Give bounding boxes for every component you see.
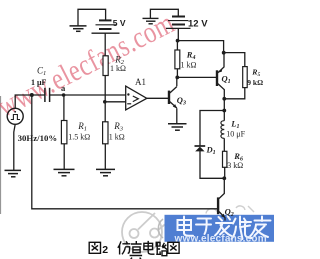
node Q1 emitter junction [222, 51, 226, 55]
路 [156, 242, 167, 255]
wire R4 bottom to junction [176, 69, 178, 78]
wire Q1 collector down [223, 99, 225, 111]
svg-text:12 V: 12 V [188, 19, 208, 30]
watermark grey logo top of blue box [206, 206, 254, 214]
电 [144, 241, 155, 254]
svg-text:5 V: 5 V [113, 18, 126, 28]
source V1 [7, 108, 23, 124]
capacitor C1 [45, 88, 50, 102]
resistor R3 [103, 122, 108, 144]
battery B2 12V [166, 17, 191, 29]
svg-text:1 kΩ: 1 kΩ [109, 132, 125, 141]
watermark blue box elecfans [158, 215, 274, 242]
wire 5V ground to battery top [78, 9, 106, 25]
watermark blue box title 电子发烧友 [178, 216, 271, 239]
node D1 top junction [222, 109, 226, 113]
图 [89, 242, 100, 253]
发 [215, 216, 232, 236]
wire feedback long loop [32, 95, 217, 209]
真 [130, 241, 143, 259]
transistor Q3 [169, 87, 177, 108]
烧 [232, 217, 253, 240]
wire R6 to junction [224, 167, 226, 178]
wire 12V rail to Q1 emitter column [178, 41, 224, 53]
图 [168, 242, 179, 253]
node R6 bottom junction [222, 176, 226, 180]
wire R1 to ground [63, 144, 65, 169]
svg-text:2: 2 [102, 244, 108, 256]
wire R5 bottom branch [224, 88, 245, 99]
svg-text:3 kΩ: 3 kΩ [227, 161, 243, 170]
transistor Q1 [217, 53, 224, 99]
ground (Q3) [168, 124, 187, 130]
wire 12V battery to rail junction [177, 28, 179, 40]
resistor R5 [243, 67, 248, 88]
wire D1 branch top [200, 111, 224, 146]
op-amp A1 [126, 86, 147, 110]
caption 图2 仿真电路图 [89, 241, 179, 259]
wire 12V ground to battery top [150, 9, 178, 18]
wire C1 to node a [50, 94, 64, 96]
wire node a to op-amp non-inverting input [63, 94, 125, 96]
ground (5V battery) [70, 26, 87, 31]
wire Q2 collector [219, 178, 224, 198]
node R4 bottom junction [175, 76, 179, 80]
wire L1 to R6 [223, 138, 225, 151]
wire Q1 base lead [177, 76, 216, 78]
wire R5 top branch [224, 53, 245, 67]
resistor R1 [61, 121, 67, 144]
resistor R4 [175, 50, 180, 69]
svg-text:1 kΩ: 1 kΩ [181, 61, 197, 70]
svg-text:10 μF: 10 μF [226, 129, 245, 138]
diode D1 [195, 146, 206, 151]
ground (source) [5, 170, 22, 176]
resistor R2 [103, 56, 108, 76]
watermark grey logo near caption [122, 212, 168, 252]
wire node a down to R1 [63, 95, 65, 121]
battery B1 5V [92, 20, 120, 33]
watermark red www.elecfans.com [0, 5, 180, 124]
ground (R3) [96, 169, 115, 175]
子 [196, 219, 211, 235]
wire inverting input stub [105, 101, 126, 103]
wire op-amp output to Q3 base [147, 97, 168, 99]
wire 5V battery to R2 [104, 33, 106, 55]
电 [178, 217, 194, 236]
wire D1 to bottom junction [200, 151, 224, 178]
wire R4 top [176, 41, 178, 50]
transistor Q2 [218, 197, 225, 220]
svg-text:www.elecfans.com: www.elecfans.com [174, 234, 267, 245]
svg-text:1 μF: 1 μF [31, 78, 47, 87]
svg-text:9 kΩ: 9 kΩ [247, 78, 263, 87]
wire Q3 collector up [176, 77, 178, 86]
node a [62, 93, 66, 97]
svg-text:A1: A1 [135, 77, 146, 87]
node Q1 collector junction [222, 97, 226, 101]
resistor R6 [223, 151, 227, 167]
wire source to ground [14, 124, 15, 170]
node 12V rail junction [176, 39, 180, 43]
svg-text:30Hz/10%: 30Hz/10% [18, 133, 58, 143]
wire R2 column (R2 bottom to R3 top) [104, 76, 106, 122]
wire Q3 emitter to ground [176, 108, 178, 123]
仿 [118, 241, 131, 254]
node inverting input junction [103, 100, 107, 104]
inductor L1 [221, 121, 224, 139]
svg-text:1 kΩ: 1 kΩ [110, 64, 126, 73]
ground (12V battery) [143, 18, 159, 23]
circuit ink [14, 9, 245, 209]
wire L1 top [223, 111, 225, 121]
node feedback junction [30, 93, 34, 97]
svg-text:1.5 kΩ: 1.5 kΩ [68, 132, 90, 141]
ground (R1) [54, 169, 75, 175]
wire R3 to ground [104, 144, 106, 169]
友 [250, 217, 271, 238]
wire source to node a row [15, 95, 45, 108]
